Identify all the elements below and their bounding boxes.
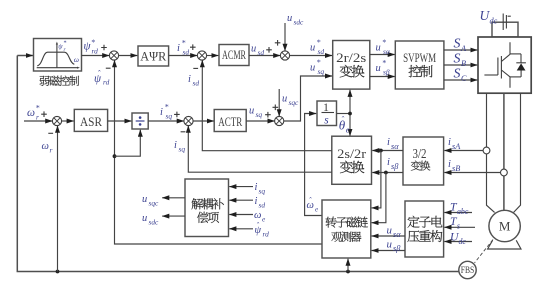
sensor FBS speed encoder — [459, 261, 476, 278]
svg-text:dc: dc — [459, 237, 467, 246]
svg-text:sq: sq — [318, 67, 325, 76]
sign plus u_sqc — [273, 105, 279, 111]
svg-text:e: e — [346, 126, 350, 135]
svg-text:u: u — [249, 106, 254, 117]
sign plus at i_sq junction — [174, 112, 180, 118]
wire omega_r feedback up to speed summing junction — [57, 126, 59, 272]
svg-text:FBS: FBS — [461, 265, 475, 275]
wire phase leg C — [514, 93, 521, 212]
wire i_salpha to 2s/2r — [372, 150, 403, 152]
wire phase leg B — [503, 93, 505, 210]
svg-text:sq: sq — [179, 145, 186, 154]
wire i_sq input stub — [229, 186, 253, 188]
svg-text:i: i — [448, 159, 451, 170]
svg-text:sB: sB — [452, 164, 460, 173]
wire ACMR to u_sd summing junction — [249, 55, 280, 57]
wire speed junction to ASR — [61, 120, 73, 122]
svg-text:u: u — [376, 63, 381, 74]
node i_sbeta branch — [384, 171, 388, 175]
block field-weakening 弱磁控制 — [34, 39, 82, 72]
summing junction u_sq plus u_sqc — [275, 116, 284, 125]
wire u_sd* to 2r/2s — [289, 55, 332, 57]
block divider — [132, 113, 148, 129]
summing junction i_sq error — [184, 116, 193, 125]
svg-text:s: s — [457, 222, 460, 231]
wire speed-feedback bottom bus from FBS to field-weakening input — [17, 56, 459, 272]
svg-text:sd: sd — [183, 48, 190, 57]
svg-text:sq: sq — [166, 112, 173, 121]
sign plus at i_sd junction — [190, 44, 196, 50]
wire i_sB from sensor to 3/2 — [444, 172, 500, 174]
block 1/s integrator — [317, 101, 337, 126]
svg-text:sα: sα — [383, 47, 390, 56]
svg-text:u: u — [376, 43, 381, 54]
summing junction u_sd plus u_sdc — [280, 51, 289, 60]
block ACTR q-axis current regulator — [214, 110, 246, 132]
wire u_salpha* to SVPWM — [370, 54, 395, 56]
wire ASR to divider — [108, 120, 132, 122]
wire u_sbeta* to SVPWM — [370, 76, 395, 78]
svg-text:sβ: sβ — [383, 68, 390, 77]
wire divider to i_sq summing junction — [148, 120, 184, 122]
node speed-feedback branch junction — [56, 270, 60, 274]
node psi_rd branch to divider — [113, 154, 117, 158]
wire u_sdc compensation stub down — [284, 23, 286, 51]
wire omega_r* reference input — [24, 120, 52, 122]
svg-text:sd: sd — [318, 47, 325, 56]
wire U_dc stub into reconstruction — [444, 241, 472, 243]
svg-text:sd: sd — [193, 79, 200, 88]
wire u_salpha into observer — [372, 235, 405, 237]
wire u_sqc compensation stub down — [278, 89, 280, 116]
wire i_sd feedback from 2s/2r — [202, 60, 331, 151]
svg-text:u: u — [387, 225, 393, 237]
wire field-weakening output to flux summing junction — [82, 55, 110, 57]
svg-text:3/2: 3/2 — [413, 147, 427, 162]
block stator voltage reconstruction 定子电压重构 — [405, 201, 444, 257]
svg-text:ω: ω — [27, 107, 35, 119]
svg-text:i: i — [160, 107, 163, 118]
svg-text:r: r — [50, 146, 53, 155]
svg-text:i: i — [177, 43, 180, 54]
wire ACTR to u_sq summing junction — [246, 120, 274, 122]
svg-text:abc: abc — [457, 207, 469, 216]
svg-text:S: S — [454, 67, 461, 82]
symbol divide sign — [136, 120, 145, 122]
wire phase leg A — [487, 93, 495, 212]
svg-text:sq: sq — [256, 110, 263, 119]
svg-text:2s/2r: 2s/2r — [337, 146, 367, 161]
block 3/2 transform — [403, 137, 444, 185]
curve field-weakening flat-top profile — [37, 52, 74, 66]
wire i_sbeta branch into observer — [372, 173, 386, 223]
svg-text:*: * — [317, 38, 321, 47]
svg-text:ASR: ASR — [80, 114, 102, 129]
svg-text:u: u — [287, 13, 292, 24]
wire S_A gate signal — [444, 49, 478, 51]
svg-text:s: s — [324, 115, 329, 127]
wire i_sq feedback from 2s/2r — [188, 126, 331, 173]
svg-text:sdc: sdc — [294, 18, 305, 27]
block DC-link bump — [492, 22, 518, 37]
svg-text:sα: sα — [391, 142, 399, 151]
svg-text:sd: sd — [258, 48, 265, 57]
svg-text:i: i — [448, 137, 451, 148]
svg-text:rd: rd — [103, 78, 110, 87]
wire u_sbeta into observer — [372, 250, 405, 252]
wire i_sd junction to ACMR — [206, 55, 218, 57]
svg-text:A: A — [460, 44, 467, 53]
svg-text:*: * — [382, 59, 386, 68]
svg-text:*: * — [36, 104, 40, 113]
svg-text:*: * — [182, 39, 186, 48]
svg-text:sβ: sβ — [393, 244, 401, 253]
svg-text:u: u — [387, 239, 393, 251]
svg-text:B: B — [461, 59, 466, 68]
svg-text:1: 1 — [323, 100, 329, 114]
svg-text:sq: sq — [259, 187, 266, 196]
sign minus at speed junction — [48, 132, 53, 134]
svg-text:i: i — [255, 196, 258, 207]
svg-text:e: e — [315, 206, 318, 214]
svg-text:*: * — [382, 38, 386, 47]
sign minus at i_sd junction — [193, 67, 198, 69]
summing junction flux error — [109, 51, 118, 60]
sign minus at flux junction — [106, 67, 111, 69]
block decoupling compensation 解耦补偿项 — [185, 179, 229, 237]
transistor IGBT symbol — [484, 74, 498, 76]
svg-text:i: i — [255, 182, 258, 193]
sensor current transducer phase A — [483, 147, 490, 154]
svg-text:sA: sA — [452, 142, 461, 151]
wire i_sq junction to ACTR — [193, 120, 214, 122]
wire dashed encoder shaft link — [475, 240, 494, 263]
svg-text:u: u — [310, 63, 315, 74]
wire psi_rd branch into divider bottom — [115, 130, 141, 157]
sign plus u_sdc — [275, 40, 281, 46]
diode freewheel — [520, 54, 522, 63]
svg-text:sqc: sqc — [149, 199, 160, 208]
motor M induction machine — [489, 210, 520, 241]
wire u_sq* riser to 2r/2s — [284, 76, 333, 121]
summing junction i_sd error — [197, 51, 206, 60]
wire psi_rd-hat from observer to flux junction — [115, 156, 323, 244]
wire S_C gate signal — [444, 79, 478, 81]
wire i_sd input stub — [229, 199, 253, 201]
svg-text:ˆ: ˆ — [309, 196, 312, 205]
svg-text:sα: sα — [393, 230, 401, 239]
sign plus u_sq — [265, 112, 271, 118]
capacitor DC-link — [502, 14, 504, 31]
svg-text:i: i — [188, 74, 191, 85]
svg-text:ˆ: ˆ — [256, 221, 259, 230]
sign plus u_sd — [266, 47, 272, 53]
wire theta_e from integrator to transforms — [337, 113, 351, 115]
svg-text:S: S — [454, 37, 461, 52]
wire T_abc stub into reconstruction — [444, 212, 472, 214]
svg-text:ACTR: ACTR — [218, 114, 242, 129]
svg-text:i: i — [174, 140, 177, 151]
sign minus at i_sq junction — [181, 131, 186, 133]
svg-text:u: u — [142, 194, 147, 205]
wire speed into flux observer bottom — [347, 259, 349, 272]
svg-text:sdc: sdc — [149, 218, 160, 227]
wire i_salpha branch into observer — [372, 151, 381, 208]
svg-text:sd: sd — [259, 201, 266, 210]
mount motor stand — [488, 240, 521, 249]
wire i_sbeta to 2s/2r — [372, 172, 403, 174]
block 2s/2r stationary-to-rotating transform — [332, 136, 372, 184]
svg-text:2r/2s: 2r/2s — [336, 50, 366, 65]
sensor current transducer phase B — [501, 169, 508, 176]
svg-text:r: r — [36, 113, 39, 122]
svg-text:C: C — [461, 74, 467, 83]
curve field-weakening characteristic axes — [56, 44, 58, 68]
block rotor flux observer 转子磁链观测器 — [322, 200, 371, 258]
wire u_sqc output stub — [162, 197, 185, 199]
svg-text:i: i — [387, 157, 390, 168]
svg-text:AΨR: AΨR — [140, 48, 166, 63]
wire omega_e input stub — [229, 214, 253, 216]
svg-text:u: u — [251, 44, 256, 55]
svg-text:*: * — [317, 58, 321, 67]
wire T_s stub into reconstruction — [444, 226, 475, 228]
wire flux junction to APsiR — [118, 55, 137, 57]
sign plus at flux junction — [101, 45, 107, 51]
svg-text:M: M — [499, 219, 511, 234]
wire omega_e-hat from observer up into integrator — [305, 114, 322, 216]
block SVPWM controller — [395, 41, 444, 89]
svg-text:rd: rd — [92, 47, 99, 56]
svg-text:u: u — [142, 213, 147, 224]
svg-text:ACMR: ACMR — [222, 47, 246, 62]
sign plus at speed junction — [41, 111, 47, 117]
svg-text:ω: ω — [42, 141, 49, 152]
svg-text:u: u — [310, 43, 315, 54]
caption 弱磁控制 — [40, 76, 50, 86]
svg-text:*: * — [165, 103, 169, 112]
node i_salpha branch — [379, 149, 383, 153]
svg-text:S: S — [454, 52, 461, 67]
wire u_sdc output stub — [162, 215, 185, 217]
wire S_B gate signal — [444, 64, 478, 66]
node observer-speed branch junction — [346, 270, 350, 274]
wire psi_rd input stub — [229, 228, 253, 230]
svg-text:ω: ω — [74, 55, 79, 64]
svg-text:ω: ω — [254, 210, 261, 221]
svg-text:i: i — [387, 137, 390, 148]
wire APsiR to i_sd summing junction — [169, 55, 198, 57]
svg-text:dc: dc — [490, 17, 498, 26]
block ACMR d-axis current regulator — [219, 45, 249, 66]
svg-text:sqc: sqc — [289, 98, 300, 107]
block 2r/2s rotating-to-stationary transform — [333, 41, 370, 90]
block APsiR flux regulator — [138, 46, 169, 66]
svg-text:rd: rd — [263, 230, 270, 239]
wire i_sA from sensor to 3/2 — [444, 150, 483, 152]
svg-text:sβ: sβ — [391, 162, 399, 171]
svg-text:u: u — [282, 94, 287, 105]
summing junction speed error — [52, 116, 61, 125]
block ASR speed regulator — [74, 109, 107, 131]
svg-text:SVPWM: SVPWM — [403, 50, 436, 65]
block inverter bridge — [478, 37, 531, 93]
